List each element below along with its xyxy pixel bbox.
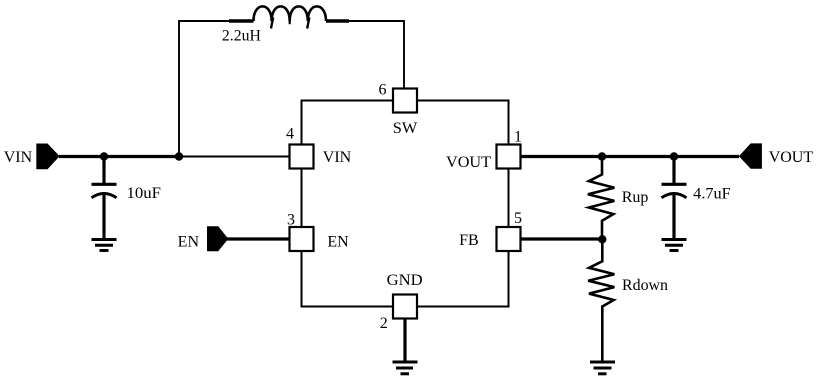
- svg-text:VIN: VIN: [4, 149, 33, 166]
- wire: [521, 237, 603, 240]
- svg-text:2: 2: [380, 315, 388, 332]
- svg-text:VOUT: VOUT: [446, 154, 491, 171]
- svg-text:EN: EN: [178, 233, 200, 250]
- junction: [100, 152, 108, 160]
- ground: [393, 362, 418, 374]
- wire: [227, 237, 290, 240]
- resistor Rup: [588, 157, 615, 240]
- junction: [598, 152, 606, 160]
- inductor L 2.2uH: [229, 6, 349, 28]
- wire: [403, 319, 406, 362]
- svg-text:SW: SW: [393, 120, 418, 137]
- svg-text:2.2uH: 2.2uH: [222, 27, 261, 44]
- svg-text:GND: GND: [387, 272, 423, 289]
- wire: [179, 21, 229, 157]
- pin 4 box VIN: [290, 145, 314, 169]
- svg-text:1: 1: [514, 128, 522, 145]
- svg-text:VOUT: VOUT: [769, 149, 814, 166]
- ground: [662, 240, 687, 251]
- capacitor 10uF: [92, 157, 117, 239]
- svg-text:EN: EN: [327, 233, 349, 250]
- svg-text:3: 3: [287, 211, 295, 228]
- junction: [670, 152, 678, 160]
- connector VOUT: [739, 143, 762, 168]
- pin 1 box VOUT: [497, 145, 521, 169]
- svg-text:Rdown: Rdown: [622, 277, 668, 294]
- svg-text:6: 6: [379, 82, 387, 99]
- pin 5 box FB: [497, 227, 521, 251]
- ground: [92, 240, 117, 251]
- svg-text:10uF: 10uF: [127, 185, 162, 202]
- wire: [179, 156, 290, 158]
- junction: [175, 152, 183, 160]
- junction: [598, 235, 606, 243]
- wire: [349, 21, 404, 89]
- svg-text:FB: FB: [459, 232, 479, 249]
- wire: [59, 155, 181, 158]
- capacitor 4.7uF: [662, 157, 687, 239]
- connector VIN: [36, 144, 59, 170]
- IC U1 outline: [302, 101, 509, 307]
- svg-text:VIN: VIN: [323, 149, 352, 166]
- svg-text:5: 5: [514, 210, 522, 227]
- pin 3 box EN: [290, 227, 314, 251]
- svg-text:4.7uF: 4.7uF: [693, 186, 731, 203]
- svg-text:Rup: Rup: [622, 189, 649, 206]
- connector EN: [207, 226, 228, 251]
- pin 2 box GND: [393, 295, 417, 319]
- resistor Rdown: [588, 239, 614, 361]
- wire: [521, 155, 740, 158]
- ground: [590, 362, 615, 374]
- svg-text:4: 4: [286, 126, 294, 143]
- pin 6 box SW: [393, 89, 417, 113]
